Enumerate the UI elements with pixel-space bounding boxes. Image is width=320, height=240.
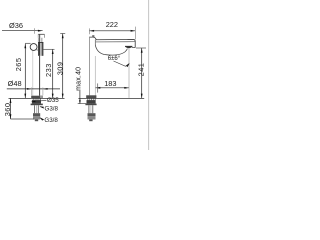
svg-text:G3/8: G3/8 (44, 117, 58, 124)
svg-text:241: 241 (136, 63, 145, 77)
svg-text:183: 183 (104, 79, 116, 88)
svg-text:222: 222 (106, 20, 118, 29)
svg-text:max.40: max.40 (76, 67, 83, 91)
svg-text:Ø36: Ø36 (9, 21, 23, 30)
svg-text:233: 233 (44, 63, 53, 77)
svg-text:265: 265 (14, 57, 23, 71)
svg-text:Ø35: Ø35 (47, 97, 59, 104)
svg-text:G3/8: G3/8 (45, 106, 59, 113)
svg-text:Ø48: Ø48 (8, 79, 22, 88)
